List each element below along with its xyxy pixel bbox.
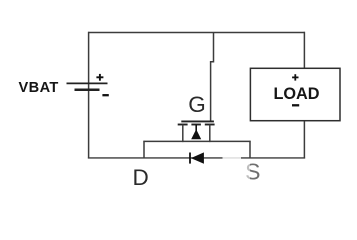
battery plus sign: [96, 74, 103, 81]
load minus sign: [292, 104, 299, 106]
wire channel D-S: [143, 140, 250, 142]
mosfet Q1 drain lead: [182, 125, 184, 143]
fade over S left side: [244, 160, 251, 183]
mosfet Q1 body contact dash: [191, 124, 201, 126]
mosfet Q1 source lead: [209, 125, 211, 143]
wire left rail through battery: [88, 32, 90, 159]
wire gate tap from top rail with jog: [211, 33, 214, 122]
battery minus sign: [102, 94, 108, 96]
wire bottom rail: [88, 157, 305, 159]
svg-text:D: D: [133, 165, 149, 190]
svg-text:G: G: [188, 92, 206, 117]
mosfet Q1 source contact dash: [205, 124, 215, 126]
faded gap in bottom rail left of S junction: [223, 156, 242, 160]
load plus sign: [292, 74, 298, 80]
svg-text:VBAT: VBAT: [19, 80, 59, 96]
load box: [250, 68, 340, 120]
mosfet Q1 gate plate: [181, 120, 214, 122]
wire source step down: [249, 141, 251, 159]
svg-text:LOAD: LOAD: [273, 85, 319, 103]
mosfet Q1 drain contact dash: [178, 124, 188, 126]
mosfet Q1 body arrow (points up to channel): [191, 125, 201, 140]
wire right rail top (to LOAD box): [303, 32, 305, 69]
wire top rail VBAT+ to LOAD+: [88, 32, 305, 34]
battery VBAT negative plate: [75, 88, 100, 91]
wire right rail bottom (from LOAD box): [303, 121, 305, 159]
body diode D1 arrow (points left): [191, 152, 204, 163]
body diode D1 cathode bar: [189, 153, 191, 164]
wire drain step down: [143, 141, 145, 159]
battery VBAT positive plate: [67, 82, 108, 84]
